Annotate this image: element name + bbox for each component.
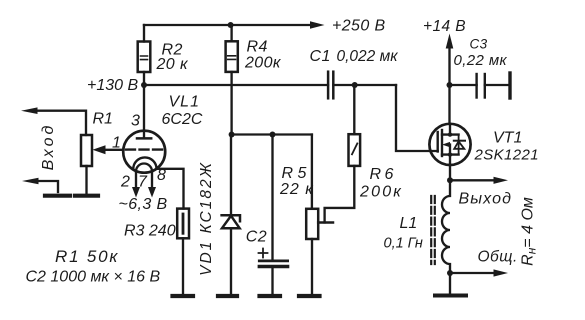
svg-text:R5: R5 xyxy=(282,165,311,182)
heater arc xyxy=(136,164,152,172)
node top rail / R4 junction xyxy=(228,22,234,28)
svg-text:200к: 200к xyxy=(359,184,403,201)
zener VD1 xyxy=(222,135,240,296)
core L1 xyxy=(431,196,435,264)
svg-text:Rн= 4 Ом: Rн= 4 Ом xyxy=(520,197,539,266)
cathode lead to R3 xyxy=(156,169,183,209)
drain link xyxy=(442,124,459,135)
svg-text:R4: R4 xyxy=(247,39,268,56)
input arrow top xyxy=(33,111,86,135)
cathode arc xyxy=(133,157,156,168)
capacitor C1 xyxy=(328,72,396,99)
svg-text:L1: L1 xyxy=(400,215,418,232)
channel xyxy=(441,130,443,156)
svg-text:+130 В: +130 В xyxy=(87,77,138,94)
plus sign C2 xyxy=(259,249,268,258)
svg-text:+250 В: +250 В xyxy=(332,18,386,35)
ground VD1 xyxy=(218,294,237,298)
svg-text:R1: R1 xyxy=(93,111,113,128)
node C1/R6 xyxy=(352,82,358,88)
anode lead xyxy=(143,85,145,138)
capacitor C2 xyxy=(259,135,287,296)
substrate arrow xyxy=(448,145,450,155)
resistor R2 xyxy=(138,25,151,85)
body diode xyxy=(458,135,460,155)
svg-text:7: 7 xyxy=(138,174,148,191)
svg-text:0,022 мк: 0,022 мк xyxy=(337,48,399,65)
svg-text:VT1: VT1 xyxy=(493,130,522,147)
potentiometer R1 xyxy=(81,135,92,166)
svg-text:+14 В: +14 В xyxy=(423,18,466,35)
node +130V xyxy=(141,82,147,88)
inductor L1 xyxy=(442,180,450,273)
heater pin 7 xyxy=(151,172,153,189)
svg-text:С2: С2 xyxy=(246,229,267,246)
svg-text:22 к: 22 к xyxy=(279,181,314,198)
svg-text:Вход: Вход xyxy=(40,123,57,171)
wire +130V node line xyxy=(144,84,328,86)
wire source to output node xyxy=(449,165,451,180)
svg-text:VD1 КС182Ж: VD1 КС182Ж xyxy=(198,161,215,276)
node output xyxy=(447,177,453,183)
arrow Vyhod xyxy=(450,179,496,181)
resistor R6 adjustable xyxy=(325,85,361,223)
ground R5 xyxy=(299,294,320,298)
svg-text:3: 3 xyxy=(131,113,140,130)
wire grid to R1 wiper xyxy=(103,149,123,151)
node common xyxy=(447,270,453,276)
trimmer R5 xyxy=(306,135,333,296)
ground R1 xyxy=(75,194,98,198)
wire R4 node to R5 xyxy=(232,133,312,135)
resistor R4 xyxy=(226,25,238,135)
heater pin 2 xyxy=(135,172,137,189)
svg-text:20 к: 20 к xyxy=(156,56,189,73)
svg-text:С2 1000 мк × 16 В: С2 1000 мк × 16 В xyxy=(26,269,161,286)
wire +250V top rail xyxy=(144,24,313,26)
gate bar xyxy=(437,132,439,152)
input arrow bottom xyxy=(34,181,58,192)
svg-text:VL1: VL1 xyxy=(169,94,200,111)
anode plate xyxy=(137,137,151,140)
svg-text:Общ.: Общ. xyxy=(478,249,518,266)
transistor VT1 envelope xyxy=(429,124,470,165)
capacitor C3 xyxy=(450,73,511,98)
svg-text:R1 50к: R1 50к xyxy=(55,247,119,266)
svg-text:6С2С: 6С2С xyxy=(162,111,203,128)
svg-text:200к: 200к xyxy=(244,55,282,72)
node C2 branch xyxy=(270,132,276,138)
grid (dashed) xyxy=(126,148,163,150)
ground R3 xyxy=(173,294,194,298)
svg-text:0,1 Гн: 0,1 Гн xyxy=(384,236,423,252)
op tube VL1 envelope xyxy=(123,131,165,173)
svg-text:2: 2 xyxy=(120,174,130,191)
svg-text:0,22 мк: 0,22 мк xyxy=(454,52,508,69)
wire to gate xyxy=(396,85,438,151)
node C3 branch xyxy=(447,82,453,88)
node R4/VD1 xyxy=(229,132,235,138)
svg-text:С1: С1 xyxy=(310,48,331,65)
svg-text:R3 240: R3 240 xyxy=(124,223,176,240)
resistor R3 xyxy=(177,209,189,295)
arrow Obsch xyxy=(450,272,496,274)
wire to ground L1 xyxy=(449,273,451,294)
ground L1 xyxy=(435,294,466,298)
wiper arrow into R1 xyxy=(93,145,106,154)
wire +14V xyxy=(448,46,450,124)
svg-text:R6: R6 xyxy=(370,166,397,183)
svg-text:8: 8 xyxy=(157,167,166,184)
ground C2 xyxy=(260,294,281,298)
svg-text:2SK1221: 2SK1221 xyxy=(474,147,540,164)
source link xyxy=(442,155,459,165)
arrow +250V xyxy=(310,21,325,28)
svg-text:~6,3 В: ~6,3 В xyxy=(119,196,168,213)
svg-text:1: 1 xyxy=(112,135,121,152)
svg-text:С3: С3 xyxy=(470,37,488,52)
wire R1 to ground xyxy=(85,166,87,194)
arrow +14V xyxy=(446,34,454,49)
ground input xyxy=(45,194,70,198)
svg-text:Выход: Выход xyxy=(459,191,513,208)
